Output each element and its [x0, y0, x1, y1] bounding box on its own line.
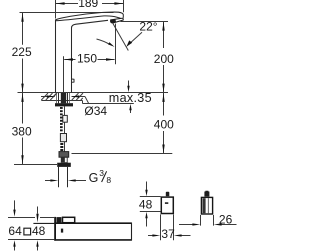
svg-text:64: 64 [8, 224, 22, 238]
svg-text:37: 37 [161, 227, 175, 241]
svg-text:189: 189 [78, 0, 98, 10]
svg-text:380: 380 [12, 125, 32, 139]
svg-text:48: 48 [32, 224, 46, 238]
svg-text:200: 200 [154, 52, 174, 66]
svg-text:225: 225 [12, 45, 32, 59]
svg-text:8: 8 [106, 175, 111, 185]
svg-text:22°: 22° [139, 19, 157, 33]
svg-text:G: G [89, 171, 99, 185]
svg-text:Ø34: Ø34 [84, 104, 107, 118]
svg-text:400: 400 [154, 118, 174, 132]
svg-text:max.35: max.35 [109, 91, 152, 105]
svg-text:150: 150 [77, 52, 97, 66]
svg-text:3: 3 [99, 168, 104, 178]
svg-text:26: 26 [219, 213, 233, 227]
svg-text:48: 48 [139, 198, 153, 212]
